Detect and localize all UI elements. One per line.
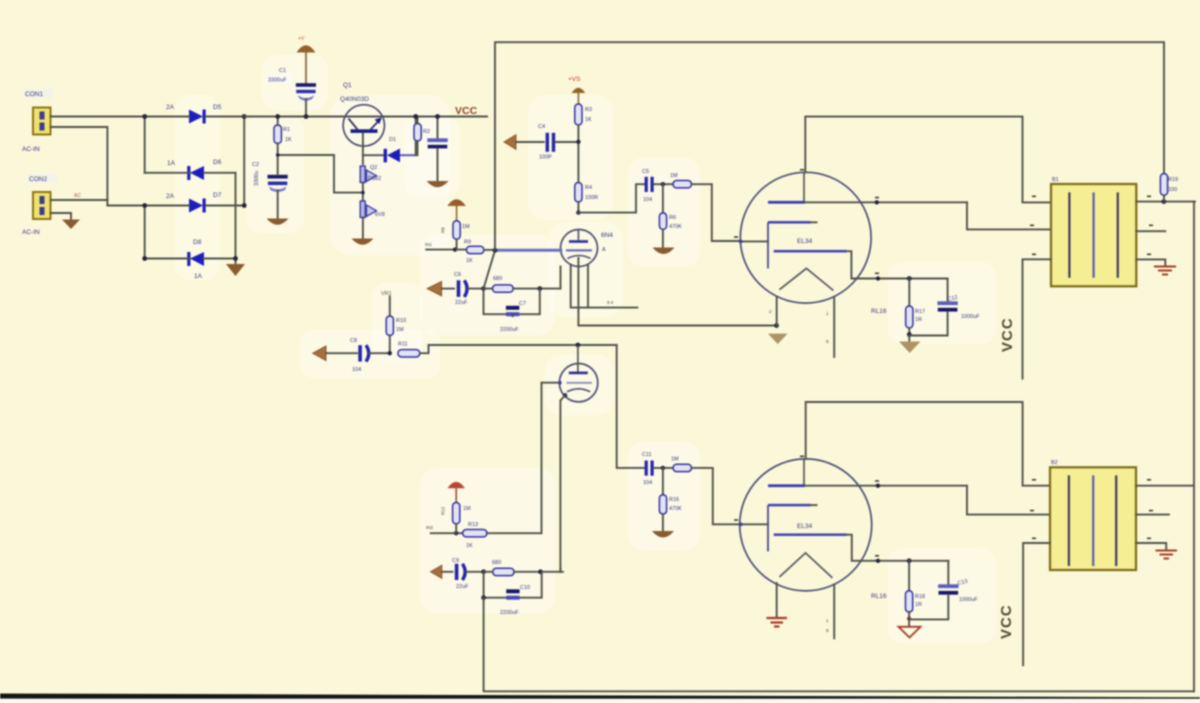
junction dot V2 plate pin — [876, 484, 880, 488]
earth ground (OPT2) — [1156, 551, 1178, 559]
resistor R16 — [659, 468, 666, 531]
junction dot below RL16 — [907, 332, 912, 337]
svg-text:R12: R12 — [441, 506, 446, 515]
wire V2 plate to OPT2 — [967, 486, 1050, 515]
V2 grid side rail — [767, 505, 769, 551]
wire input row ch1 — [426, 249, 466, 251]
svg-text:1A: 1A — [194, 273, 203, 280]
ground (regulator) — [352, 239, 374, 245]
resistor R12 — [453, 503, 460, 534]
wire C1 to rail — [305, 99, 307, 117]
svg-text:+VS: +VS — [568, 76, 581, 83]
V2 bottom pin right — [833, 585, 835, 639]
svg-text:Q1: Q1 — [343, 82, 352, 89]
ground (bridge) — [226, 264, 245, 276]
svg-text:VCC: VCC — [998, 604, 1015, 639]
svg-text:1R: 1R — [915, 317, 922, 323]
svg-text:1R: 1R — [915, 602, 922, 608]
wire cathode riser U1A — [560, 267, 562, 289]
junction dot V1 cathode net — [907, 276, 912, 281]
wire plate node to coupling C5 — [578, 184, 644, 212]
wire Q2-Q3 junction — [362, 183, 364, 202]
svg-text:B2: B2 — [1051, 460, 1058, 466]
svg-text:A: A — [602, 247, 606, 253]
svg-text:R18: R18 — [915, 594, 925, 600]
power arrow +V (top PSU) — [297, 45, 316, 83]
label R5 — [670, 173, 678, 179]
svg-text:Q2: Q2 — [370, 165, 377, 171]
transistor Q2 — [360, 166, 376, 183]
bypass loop ch1 — [484, 289, 540, 315]
pin tick marks V1 — [734, 169, 879, 274]
label C2 — [252, 162, 260, 186]
svg-text:680: 680 — [492, 560, 501, 566]
junction dots rail — [275, 114, 308, 157]
junction dot R14 right — [538, 569, 543, 574]
wire OPT1 secondary mid stub — [1136, 230, 1165, 232]
wire plate line down to coupling ch2 — [617, 345, 644, 468]
resistor R6 — [659, 184, 666, 247]
wire bridge row4 — [145, 258, 236, 260]
wire Q1 emitter chain down — [362, 133, 364, 164]
power arrow +VS — [572, 88, 586, 104]
label C8 — [350, 338, 361, 373]
capacitor C4 — [546, 133, 579, 152]
resistor R8 — [453, 221, 460, 250]
label C7 — [500, 301, 526, 333]
capacitor C7 (ch1 bypass) — [506, 306, 519, 316]
svg-text:2A: 2A — [166, 193, 175, 200]
heater stubs U1A — [571, 265, 638, 308]
junction dot bias ch2 — [454, 531, 458, 535]
junction dot heater run — [774, 323, 779, 328]
resistor R4 — [575, 183, 582, 213]
svg-text:+V: +V — [298, 36, 305, 42]
diode D7 — [189, 199, 206, 213]
resistor R2 — [414, 117, 421, 156]
photo wash halos (decorative, not labelled) — [175, 55, 996, 643]
label C10 — [500, 585, 530, 616]
V1 cathode vee — [779, 268, 833, 290]
ground (V2 cathode, red) — [899, 627, 921, 638]
svg-text:C2: C2 — [252, 162, 259, 168]
input port arrow (CH1) — [427, 281, 454, 296]
junction dot bias ch1 — [453, 247, 457, 251]
junction dot R7 right — [537, 286, 542, 291]
junction dot ch2 input — [388, 351, 392, 355]
junction dot C11-R16 — [661, 466, 665, 470]
svg-text:1M: 1M — [671, 457, 679, 463]
svg-text:IN1: IN1 — [425, 242, 433, 247]
wire plate line ch2 — [429, 344, 617, 346]
svg-text:R19: R19 — [1168, 177, 1178, 183]
wire cathode U1A down to heater ground run — [578, 258, 776, 326]
svg-text:R8: R8 — [441, 227, 446, 233]
capacitor C12 (V1 cathode bypass) — [909, 279, 958, 336]
V1 grid side rail — [767, 222, 769, 268]
ground (heater run) — [768, 334, 788, 344]
svg-text:C5: C5 — [642, 169, 649, 175]
label Q2 — [368, 165, 381, 182]
junction dot grid edge U1B — [558, 381, 562, 385]
svg-text:100P: 100P — [539, 155, 552, 161]
pin tick marks OPT2 — [1030, 479, 1153, 539]
junction dot plate node U1A — [576, 210, 580, 214]
capacitor C9 (ch2 cathode row) — [455, 564, 484, 580]
ground (CON2) — [62, 220, 80, 230]
wire CON2 pin2 to ground — [51, 213, 72, 219]
svg-text:1M: 1M — [670, 173, 678, 179]
capacitor C8 — [358, 345, 390, 361]
earth ground (V2 heater pin) — [767, 618, 788, 627]
zener diode D1 — [363, 117, 416, 163]
svg-text:1A: 1A — [167, 160, 176, 167]
transformer B2 — [1050, 467, 1136, 570]
diode D8 — [187, 252, 204, 266]
svg-text:R9: R9 — [464, 240, 471, 246]
V2 grid entry — [740, 523, 769, 525]
pentode V2 envelope — [740, 459, 872, 591]
capacitor C1 label box — [267, 68, 291, 84]
V2 pin number labels — [826, 618, 829, 633]
junction dot cathode U1B — [563, 393, 567, 397]
junction dot V1 plate pin — [875, 200, 879, 204]
wire OPT2 secondary bottom — [1136, 543, 1166, 549]
junction dot feedback ch1 — [493, 248, 498, 253]
svg-text:100R: 100R — [585, 195, 598, 201]
junction dots at VCC out — [413, 114, 440, 119]
pin tick marks V2 — [734, 456, 879, 557]
pentode V1 envelope — [740, 172, 871, 303]
capacitor C5 — [645, 177, 673, 192]
wire OPT1 primary bottom to VCC stub — [1023, 259, 1052, 378]
svg-text:1000uF: 1000uF — [959, 597, 978, 603]
svg-text:104: 104 — [352, 367, 361, 373]
svg-text:1M: 1M — [396, 327, 404, 333]
svg-text:IN2: IN2 — [426, 525, 434, 530]
label VR1 value — [396, 318, 406, 333]
resistor R3 — [575, 104, 582, 183]
capacitor C10 (ch2 bypass) — [506, 589, 519, 599]
wire OPT2 primary bottom to VCC stub — [1023, 543, 1050, 665]
svg-text:C11: C11 — [642, 452, 652, 458]
svg-text:6V8: 6V8 — [375, 212, 385, 218]
junction dot regulator base — [361, 191, 365, 195]
svg-text:2200uF: 2200uF — [500, 610, 519, 616]
svg-text:C8: C8 — [350, 338, 357, 344]
svg-text:3300u: 3300u — [254, 171, 260, 186]
svg-text:C4: C4 — [538, 124, 545, 130]
junction dot V2 cathode net — [907, 558, 912, 563]
wire bridge right column row2-row4 — [235, 173, 237, 263]
svg-text:R3: R3 — [585, 107, 592, 113]
wire CON2 pin1 to bridge column — [51, 199, 108, 201]
svg-text:B1: B1 — [1052, 177, 1059, 183]
label RL16 (V1) — [871, 308, 925, 323]
svg-text:D8: D8 — [193, 239, 202, 246]
svg-text:R4: R4 — [585, 185, 592, 191]
pin tick marks OPT1 — [1030, 196, 1153, 256]
wire V1 plate to OPT1 — [967, 202, 1051, 229]
junction dot R3-C4 — [576, 140, 580, 144]
resistor R19 (feedback ch1) — [1160, 174, 1167, 202]
resistor R13 (ch2 grid) — [463, 530, 487, 537]
earth ground (OPT1) — [1154, 267, 1176, 275]
junction dot V1 grid edge — [739, 240, 743, 244]
wire grid row ch2 — [431, 532, 542, 534]
svg-text:C7: C7 — [519, 301, 526, 307]
input port arrow (CH2 cathode row) — [431, 565, 453, 578]
ground (R6) — [653, 248, 675, 255]
wire cathode U1B down — [560, 395, 565, 572]
label C13 — [957, 579, 978, 603]
label R4 — [585, 185, 598, 201]
junction dot ch2 cathode row — [481, 569, 486, 574]
feedback wire top loop (ch1) — [495, 42, 1164, 250]
svg-text:100: 100 — [1168, 187, 1177, 193]
svg-text:C10: C10 — [520, 585, 530, 591]
wire bridge left column row3-row4 — [144, 206, 146, 259]
junction dot below RL16 V2 — [907, 617, 911, 621]
svg-text:CON2: CON2 — [29, 176, 47, 183]
junction dots bridge — [142, 114, 246, 261]
capacitor C11 (ch2 coupling) — [645, 461, 673, 476]
ground (C2) — [267, 219, 289, 225]
svg-text:AC-IN: AC-IN — [22, 229, 40, 236]
resistor RL16 (V1 cathode) — [906, 279, 913, 342]
svg-text:3300uF: 3300uF — [268, 78, 287, 84]
junction dot V2 cathode pin — [876, 559, 880, 563]
wire R1 bottom to regulator base — [278, 155, 363, 193]
svg-text:R10: R10 — [396, 318, 406, 324]
power arrow (C4 left) — [504, 135, 544, 150]
svg-text:R11: R11 — [398, 342, 408, 348]
ground (C3) — [427, 181, 449, 187]
connector CON2 — [33, 192, 51, 219]
wire OPT2 secondary mid stub — [1136, 514, 1169, 516]
label R16 — [669, 497, 682, 512]
bottom black border bar — [0, 694, 1200, 703]
svg-text:9 4: 9 4 — [607, 300, 614, 305]
wire V2 top to OPT2 g2 tap — [806, 402, 1050, 486]
V2 screen grid — [768, 504, 817, 507]
label C9 — [452, 558, 469, 590]
label C4 — [538, 124, 552, 161]
diode D5 — [189, 110, 206, 124]
svg-text:470K: 470K — [669, 224, 682, 230]
svg-text:1K: 1K — [466, 543, 473, 549]
svg-text:R16: R16 — [669, 497, 679, 503]
resistor R14 (ch2 cathode) — [484, 568, 563, 575]
svg-text:1K: 1K — [585, 117, 592, 123]
capacitor C1 — [296, 83, 316, 101]
V2 suppressor grid — [774, 533, 949, 560]
svg-text:2200uF: 2200uF — [500, 327, 519, 333]
ground (V1 cathode) — [899, 342, 921, 354]
triode U1A — [561, 230, 598, 267]
label Q1 — [340, 82, 369, 103]
wire bridge left column row1-row2 — [144, 117, 146, 173]
svg-text:1M: 1M — [462, 224, 470, 230]
label R3 — [585, 107, 592, 123]
svg-text:Q40N03D: Q40N03D — [340, 96, 369, 103]
svg-text:C9: C9 — [452, 558, 459, 564]
label R12 — [441, 506, 472, 515]
junction dot plate U1B — [576, 343, 581, 348]
svg-text:1K: 1K — [466, 258, 473, 264]
svg-text:1000uF: 1000uF — [961, 314, 980, 320]
capacitor C2 — [268, 175, 288, 192]
connector CON1 — [33, 108, 51, 135]
bypass loop ch2 — [484, 572, 542, 598]
svg-text:D882: D882 — [368, 176, 381, 182]
svg-text:D6: D6 — [213, 159, 222, 166]
label C6 — [454, 272, 468, 306]
svg-text:2A: 2A — [166, 104, 175, 111]
wire CON1 pin2 down to bridge row3 — [51, 127, 108, 206]
svg-text:R1: R1 — [283, 127, 290, 133]
label R8 — [441, 224, 471, 233]
wire Q3 to ground — [362, 218, 364, 239]
svg-text:VCC: VCC — [455, 105, 478, 117]
wire C2 to ground — [277, 155, 279, 218]
V1 bottom pin right — [833, 298, 835, 357]
resistor R7 (ch1 cathode) — [484, 285, 561, 292]
label R13 — [466, 522, 478, 549]
wire grid U1B down to bias row — [541, 383, 543, 534]
wire OPT1 secondary bottom — [1136, 259, 1165, 264]
wire bridge right column row1-row3 — [243, 117, 245, 206]
wire V1 top to OPT1 g2 tap — [805, 117, 1051, 203]
svg-text:R17: R17 — [915, 309, 925, 315]
svg-text:RL16: RL16 — [871, 308, 887, 315]
triode U1B — [559, 345, 597, 402]
svg-text:VCC: VCC — [999, 317, 1016, 352]
svg-text:RL16: RL16 — [871, 593, 887, 600]
svg-text:6N4: 6N4 — [601, 232, 613, 239]
wire grid U1B — [542, 382, 560, 384]
wire bridge row3 — [107, 205, 244, 207]
resistor R9 (ch1 grid) — [466, 246, 495, 253]
resistor R11 (ch2 series) — [398, 345, 429, 357]
svg-text:AC: AC — [74, 193, 81, 199]
svg-text:D5: D5 — [213, 104, 222, 111]
svg-text:22uF: 22uF — [455, 300, 468, 306]
svg-text:R13: R13 — [468, 522, 478, 528]
label R6 — [669, 215, 682, 230]
svg-text:R6: R6 — [669, 215, 676, 221]
resistor RL16 (V2 cathode) — [906, 561, 913, 626]
power arrow (R8 bias ch1) — [447, 199, 466, 221]
connector CON1 label — [24, 89, 53, 99]
label C5 — [642, 169, 652, 203]
svg-text:680: 680 — [493, 276, 502, 282]
svg-text:470K: 470K — [669, 506, 682, 512]
wire riser to U1B cathode — [559, 568, 561, 572]
junction dot V2 grid edge — [739, 523, 743, 527]
wire VCC rail — [244, 116, 487, 118]
svg-text:CON1: CON1 — [25, 91, 43, 98]
V1 grid entry — [740, 240, 769, 242]
wire grid U1A (navy) — [497, 249, 561, 252]
svg-text:EL34: EL34 — [797, 523, 813, 530]
resistor VR1 — [386, 297, 393, 354]
junction dot ch1 cathode row — [481, 286, 486, 291]
V1 suppressor grid — [774, 250, 948, 279]
ground (R16) — [652, 531, 674, 538]
transistor Q1 — [343, 105, 384, 146]
wire bridge row1 — [145, 116, 245, 118]
V1 plate — [768, 172, 967, 203]
capacitor C13 (V2 cathode bypass) — [909, 561, 958, 620]
capacitor C3 — [427, 117, 447, 181]
svg-text:104: 104 — [643, 480, 652, 486]
svg-text:C6: C6 — [454, 272, 461, 278]
junction dot OPT1 output — [1161, 199, 1166, 204]
svg-text:EL34: EL34 — [797, 238, 813, 245]
label C11 — [642, 452, 652, 486]
wire bridge row2 — [145, 172, 236, 174]
svg-text:AC-IN: AC-IN — [22, 146, 40, 153]
wire OPT2 secondary top — [1136, 485, 1194, 487]
ground stub (V1 heater pin) — [768, 334, 787, 344]
label C12 — [947, 295, 980, 320]
junction dot ch2 loop corner — [481, 595, 486, 600]
speaker common wire right edge — [1193, 202, 1195, 692]
label R9 — [464, 240, 473, 265]
feedback wire bottom loop (ch2) — [484, 598, 1194, 692]
label R19 — [1168, 177, 1178, 193]
feedback diagonal ch1 — [484, 250, 496, 288]
junction dot C5-R6 — [661, 182, 665, 186]
svg-text:D7: D7 — [213, 192, 222, 199]
V1 screen grid — [768, 221, 817, 224]
junction dot V1 cathode pin — [876, 276, 880, 280]
resistor R5 (grid stopper V1) — [673, 181, 740, 242]
svg-text:D1: D1 — [389, 137, 396, 143]
capacitor C6 (cathode row ch1) — [457, 280, 484, 297]
transformer B1 — [1051, 184, 1136, 286]
label R1 — [283, 127, 292, 143]
connector CON2 label — [28, 174, 57, 184]
diode D6 — [187, 166, 204, 180]
wire OPT1 secondary top — [1136, 201, 1195, 203]
transistor Q3 — [360, 201, 376, 218]
svg-text:R2: R2 — [423, 129, 430, 135]
wire CON1 pin1 to bridge row1 — [51, 116, 145, 118]
V2 cathode vee — [779, 553, 832, 578]
resistor R1 — [274, 117, 281, 156]
svg-text:22uF: 22uF — [456, 584, 469, 590]
resistor R15 (grid stopper V2) — [673, 464, 740, 524]
V2 bottom pin left — [776, 583, 778, 617]
svg-text:C1: C1 — [279, 68, 286, 74]
label U1A 6N4 — [601, 232, 613, 253]
V2 plate — [768, 459, 967, 487]
V1 pin number labels — [769, 309, 829, 344]
svg-text:1K: 1K — [285, 137, 292, 143]
label RL16 (V2) — [871, 593, 925, 608]
input port arrow (CH2 top) — [313, 346, 357, 361]
V1 bottom pin left — [776, 297, 778, 326]
svg-text:1M: 1M — [463, 506, 471, 512]
power arrow (R12 bias ch2, red) — [448, 482, 465, 503]
svg-text:104: 104 — [643, 197, 652, 203]
